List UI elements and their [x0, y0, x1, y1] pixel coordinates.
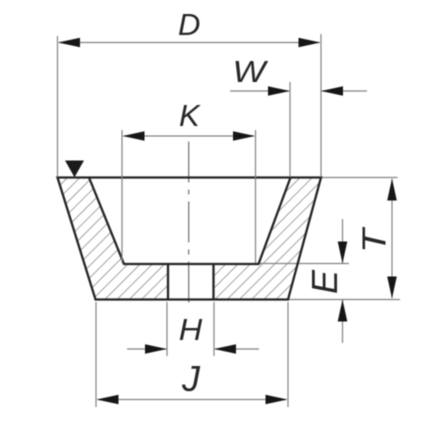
extension line: cavity floor extended right for E — [259, 263, 350, 265]
dimension D — [58, 34, 322, 177]
svg-text:W: W — [233, 54, 269, 89]
centerline (dash-dot axis) — [188, 142, 190, 306]
dimension W — [230, 82, 367, 177]
dimension E — [338, 219, 348, 343]
extension line: bottom edge extended right for E and T — [288, 299, 400, 301]
extension line: top edge extended right for T — [321, 177, 398, 179]
svg-text:T: T — [356, 226, 393, 253]
dimension T — [387, 179, 397, 299]
svg-text:J: J — [181, 358, 201, 399]
hatching left wall and base section — [58, 178, 169, 300]
dimension K — [122, 130, 256, 263]
grinding-face marker triangle — [65, 161, 84, 178]
dimension H — [127, 302, 259, 356]
svg-text:K: K — [179, 98, 201, 133]
hatching right wall and base section — [214, 178, 322, 300]
wheel cross-section outline — [58, 178, 322, 300]
svg-text:D: D — [178, 7, 200, 42]
svg-text:H: H — [179, 312, 203, 347]
svg-text:E: E — [304, 269, 345, 294]
dimension J — [96, 302, 288, 407]
